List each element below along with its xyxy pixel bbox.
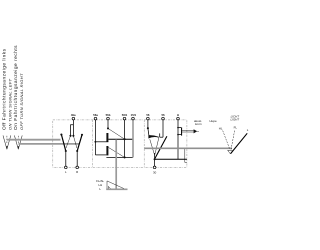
svg-text:56b: 56b [106,113,111,117]
svg-text:Horn: Horn [195,122,202,126]
svg-text:L: L [247,128,249,132]
svg-text:ON TURN SIGNAL LEFT: ON TURN SIGNAL LEFT [7,78,12,130]
svg-text:HL: HL [219,126,223,130]
svg-text:56: 56 [161,113,165,117]
svg-text:L: L [65,170,67,174]
svg-text:OFF TURN SIGNAL RIGHT: OFF TURN SIGNAL RIGHT [19,73,24,130]
svg-text:Hupe: Hupe [210,119,218,123]
svg-text:15/1: 15/1 [131,113,137,117]
svg-text:LIGHT: LIGHT [231,118,240,122]
svg-text:56/1: 56/1 [122,113,128,117]
svg-text:H: H [177,113,179,117]
svg-text:30: 30 [153,170,157,174]
svg-text:49a: 49a [71,113,76,117]
svg-text:56a: 56a [93,113,98,117]
svg-text:56: 56 [146,113,150,117]
svg-text:FL: FL [234,126,238,130]
svg-text:L: L [99,187,101,191]
svg-text:R: R [76,170,78,174]
